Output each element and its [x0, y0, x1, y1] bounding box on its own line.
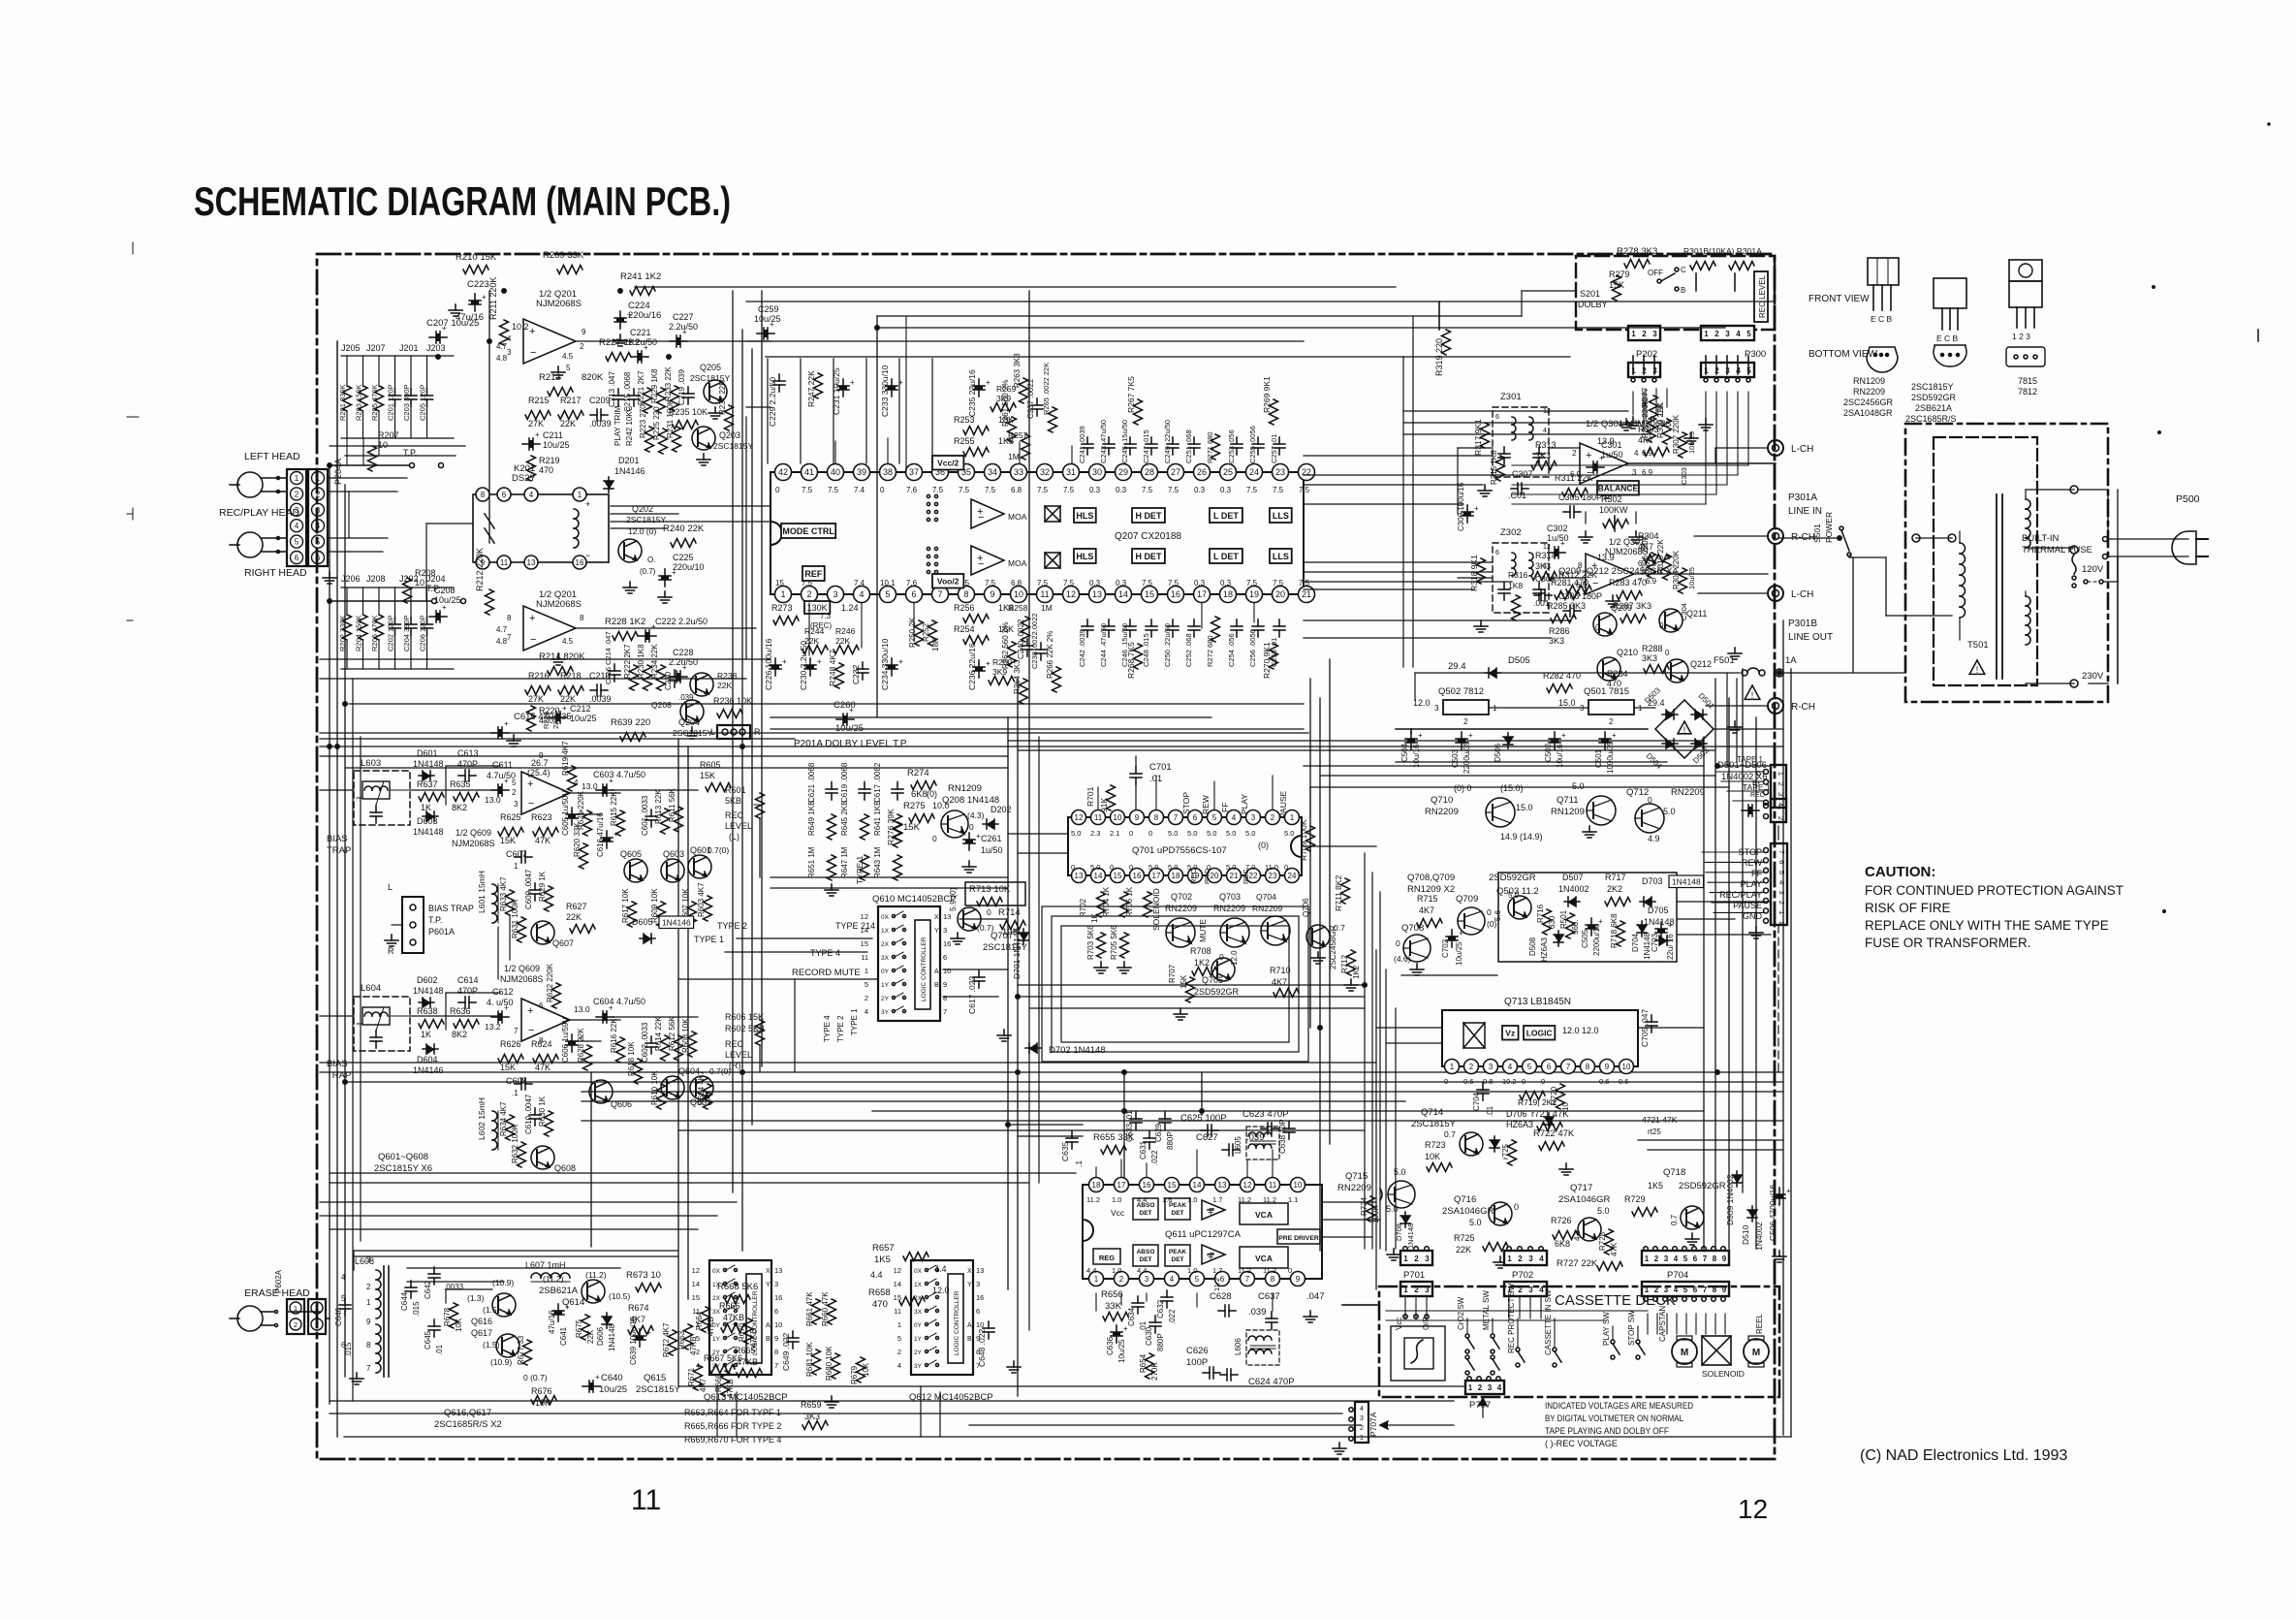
page number 12: [1738, 1494, 1768, 1524]
wire p202 risers: [1633, 356, 1654, 374]
junction dots cluster c: [328, 463, 1841, 1084]
svg-text:O/P: O/P: [1422, 1317, 1431, 1330]
label Q701 uPD7556CS-107: [1132, 841, 1269, 856]
svg-text:1N4002: 1N4002: [1558, 884, 1589, 894]
svg-text:820K: 820K: [582, 372, 604, 383]
svg-text:5: 5: [1212, 813, 1217, 822]
resistor R624 47K: [531, 1039, 558, 1072]
mixer lower: [1045, 553, 1060, 568]
svg-text:3: 3: [1434, 704, 1439, 713]
wire vertical x710 mid: [687, 746, 689, 1299]
svg-text:T.P.: T.P.: [428, 915, 442, 925]
wire x1448 drop: [1402, 357, 1404, 667]
IC Q713 body: [1442, 1010, 1638, 1066]
resistor R319 220 (vert): [1434, 330, 1451, 376]
label P301B LINE OUT: [1788, 619, 1833, 643]
svg-text:RIGHT HEAD: RIGHT HEAD: [244, 567, 307, 579]
svg-text:5: 5: [1195, 1275, 1200, 1284]
wire left column risers: [347, 438, 379, 465]
svg-text:22K: 22K: [717, 681, 732, 690]
label RECORD MUTE: [792, 968, 861, 978]
svg-text:BIAS TRAP: BIAS TRAP: [428, 904, 474, 913]
resistor R607 10K (vert): [681, 888, 697, 927]
transistor Q718 2SD592GR: [1663, 1167, 1726, 1245]
svg-text:0.6: 0.6: [1599, 1077, 1609, 1086]
svg-text:10: 10: [774, 1320, 782, 1329]
svg-text:R273: R273: [771, 603, 793, 613]
svg-text:R637: R637: [417, 779, 438, 789]
transistor Q202 2SC1815Y: [618, 504, 666, 562]
svg-text:OFF: OFF: [1648, 269, 1663, 277]
svg-text:RN1209: RN1209: [948, 783, 982, 794]
svg-text:D505: D505: [1508, 655, 1530, 666]
svg-text:(1.5): (1.5): [483, 1305, 500, 1315]
svg-text:5.0: 5.0: [1284, 829, 1294, 838]
box REC LEVEL vertical: [1754, 271, 1768, 322]
svg-text:D202: D202: [991, 805, 1012, 814]
legend labels RN1209 group: [1843, 376, 1894, 418]
svg-text:9: 9: [1605, 1063, 1610, 1071]
svg-text:2: 2: [1609, 717, 1614, 726]
svg-text:16: 16: [576, 558, 584, 567]
capacitor C502 10u/16 (vert): [1544, 731, 1566, 768]
capacitor C604 4.7u/50: [593, 997, 645, 1023]
resistor R702 1K (vert): [1079, 892, 1106, 923]
svg-text:C303: C303: [1680, 467, 1688, 485]
transistor Q717: [1578, 1218, 1601, 1241]
svg-text:22K: 22K: [560, 419, 576, 429]
svg-text:C232: C232: [851, 664, 861, 684]
svg-text:R219: R219: [539, 456, 560, 465]
svg-text:TYPE 1: TYPE 1: [694, 935, 724, 944]
label Q713 LB1845N: [1504, 997, 1571, 1007]
svg-text:R616 22K: R616 22K: [610, 1018, 618, 1053]
svg-text:REC PROTECT SW: REC PROTECT SW: [1507, 1283, 1516, 1353]
svg-text:L: L: [388, 882, 393, 892]
svg-text:0: 0: [1110, 863, 1114, 872]
svg-text:7.5: 7.5: [828, 486, 839, 494]
svg-text:9: 9: [990, 589, 994, 599]
svg-text:880P: 880P: [1156, 1333, 1165, 1351]
label RIGHT HEAD: [244, 567, 307, 579]
svg-text:0.3: 0.3: [1116, 579, 1127, 588]
ground bridge: [1728, 721, 1742, 733]
connector P702 row2: [1504, 1282, 1547, 1296]
resistor R705 5K6 (vert): [1110, 925, 1131, 973]
svg-text:L-CH: L-CH: [1791, 444, 1813, 455]
svg-text:13.0: 13.0: [485, 795, 501, 805]
svg-text:13.2: 13.2: [485, 1022, 501, 1032]
resistor R279 15K: [1609, 270, 1630, 301]
wire mid horizontal y812: [1310, 786, 1729, 788]
resistor R262 560 2% (vert): [1001, 622, 1017, 669]
page number 11: [631, 1484, 661, 1516]
capacitor C225 220u/10: [623, 553, 705, 603]
resistor R263 3K3 (vert): [1013, 353, 1028, 403]
resistor R603 4K7 (vert): [697, 882, 712, 921]
legend labels 2SC1815Y group: [1905, 382, 1957, 424]
svg-text:12: 12: [1738, 1494, 1768, 1524]
svg-text:6: 6: [943, 953, 947, 962]
wire bottom bundle y1445: [330, 1400, 1454, 1402]
svg-text:X: X: [766, 1268, 771, 1275]
svg-text:+: +: [504, 1003, 509, 1012]
svg-text:R630 1K: R630 1K: [538, 1096, 547, 1127]
wire q713 feeds: [1376, 1028, 1704, 1043]
wire mid horizontal y960 right: [1677, 934, 1771, 936]
IC Q701 top pins 12-1: [1071, 810, 1300, 839]
resistor R636 8K2: [450, 1006, 479, 1039]
capacitor C212 10u/25: [542, 704, 597, 729]
svg-text:25: 25: [1223, 467, 1233, 477]
svg-text:R303: R303: [1638, 425, 1659, 434]
svg-text:18: 18: [1092, 1181, 1101, 1190]
svg-text:LOGIC CONTROLLER: LOGIC CONTROLLER: [954, 1290, 960, 1355]
svg-text:C624 470P: C624 470P: [1248, 1377, 1295, 1387]
svg-text:10u/25: 10u/25: [570, 714, 597, 723]
svg-text:15.0: 15.0: [1558, 698, 1576, 708]
svg-text:1: 1: [1704, 330, 1709, 338]
resistor R260 3K9: [989, 657, 1014, 685]
transistor Q503: [1494, 891, 1531, 921]
svg-text:(R): (R): [729, 1061, 741, 1070]
svg-text:11: 11: [861, 953, 868, 962]
resistor R216 27K: [525, 671, 550, 704]
svg-text:R703 5K6: R703 5K6: [1086, 925, 1095, 960]
svg-text:1: 1: [1645, 1255, 1650, 1263]
capacitor C619 .0068 (vert): [840, 762, 870, 803]
pot R302 100KW: [1579, 494, 1643, 543]
svg-text:C615 470u/35: C615 470u/35: [514, 712, 572, 722]
wire x1458 drop: [1412, 316, 1414, 667]
svg-text:9: 9: [366, 1318, 371, 1326]
svg-text:3: 3: [1528, 1255, 1533, 1263]
svg-text:8: 8: [366, 1341, 371, 1350]
label MUTE (rot): [1198, 919, 1208, 942]
op-amp U-Q201b: [496, 606, 584, 665]
svg-text:29.4: 29.4: [1448, 661, 1466, 672]
wire band y1166: [678, 1129, 1365, 1131]
resistor R711 8K2 (vert): [1334, 875, 1350, 911]
connector BIAS TRAP T.P. P601A: [385, 882, 474, 956]
capacitor C640 10u/25: [582, 1373, 627, 1395]
svg-text:(C) NAD Electronics Ltd. 199: (C) NAD Electronics Ltd. 1993: [1860, 1447, 2067, 1464]
IC Q610 MC14052BCP: [861, 906, 952, 1021]
svg-text:−: −: [978, 512, 984, 524]
svg-text:R211 220K: R211 220K: [488, 277, 498, 320]
svg-text:Z301: Z301: [1500, 392, 1522, 402]
transformer primary coil: [1960, 531, 1966, 640]
svg-text:Q712: Q712: [1626, 787, 1649, 798]
svg-text:Y: Y: [766, 1282, 771, 1288]
svg-text:Q706: Q706: [1302, 898, 1310, 917]
wire top bus d: [877, 327, 1725, 329]
capacitor C615 470u/35: [491, 712, 572, 746]
svg-text:C213 .047: C213 .047: [608, 371, 616, 407]
box LOGIC: [1524, 1026, 1555, 1040]
capacitor C704 .01 (vert): [1472, 1083, 1494, 1117]
resistor R316 1K8: [1508, 570, 1528, 620]
svg-text:8: 8: [1154, 813, 1159, 822]
svg-text:C606 1u/59V: C606 1u/59V: [561, 1017, 570, 1063]
svg-text:1: 1: [1450, 1063, 1455, 1071]
svg-text:+: +: [849, 706, 854, 715]
resistor R666 47KB: [719, 1301, 746, 1333]
svg-text:R651 1M: R651 1M: [807, 846, 816, 878]
wire right vertical bus x1362: [1319, 698, 1321, 1251]
wire right vertical bus x1372: [1329, 659, 1331, 1144]
svg-text:0.3: 0.3: [1194, 486, 1206, 494]
svg-text:4.4: 4.4: [870, 1270, 883, 1280]
resistor R707 15K (rot): [1168, 964, 1195, 1002]
svg-text:C634: C634: [1127, 1307, 1136, 1326]
svg-text:2: 2: [1777, 782, 1785, 786]
op-amp U-Q201a: [496, 319, 586, 378]
label T501: [1967, 640, 1989, 675]
resistor R287 3K3: [1613, 601, 1651, 623]
capacitor C238 .0022 (vert): [1030, 613, 1047, 669]
ground lineout: [1728, 648, 1742, 659]
svg-text:2SA1046GR: 2SA1046GR: [1442, 1206, 1494, 1217]
resistor R672 4K7 (vert): [662, 1322, 677, 1357]
label BIAS TRAP lower: [327, 1059, 351, 1081]
svg-text:!: !: [1976, 665, 1979, 675]
wire under jbank a: [330, 445, 465, 447]
svg-text:P301B: P301B: [1788, 619, 1817, 629]
svg-text:7.5: 7.5: [1273, 486, 1284, 494]
svg-text:1: 1: [865, 967, 868, 975]
svg-text:R628 22K: R628 22K: [577, 1028, 585, 1063]
svg-text:2: 2: [1642, 330, 1647, 338]
svg-text:6: 6: [539, 1001, 544, 1010]
svg-text:+: +: [1560, 539, 1565, 548]
svg-text:2: 2: [1777, 901, 1786, 905]
svg-text:RN1209: RN1209: [1551, 807, 1585, 817]
svg-text:3Y: 3Y: [881, 1009, 890, 1016]
wire q701 left feeds: [1008, 834, 1068, 853]
diode D602 1N4148: [413, 975, 444, 1007]
svg-text:R274: R274: [907, 768, 929, 778]
capacitor C612 4.7u/50: [485, 987, 514, 1032]
svg-text:7: 7: [774, 1361, 778, 1370]
svg-text:VCA: VCA: [1255, 1254, 1273, 1263]
capacitor C636 10u/25 (vert): [1106, 1324, 1128, 1363]
svg-text:P301A: P301A: [1788, 492, 1817, 503]
svg-text:11: 11: [1269, 1181, 1277, 1190]
resistor R217 22K: [558, 396, 583, 429]
label Q601~Q608 2SC1815Y X6: [374, 1152, 432, 1174]
box BALANCE: [1597, 481, 1639, 495]
svg-text:0.6: 0.6: [1619, 1077, 1628, 1086]
capacitor C306 180P: [1558, 591, 1602, 617]
svg-text:D703: D703: [1642, 876, 1663, 886]
resistor R228 1K2: [605, 617, 645, 641]
resistor R633 4K7 (vert): [499, 876, 515, 915]
svg-text:D509 1N4002: D509 1N4002: [1725, 1174, 1735, 1225]
transistor Q617: [490, 1334, 519, 1367]
svg-text:0X: 0X: [712, 1268, 721, 1275]
jack L-CH line in: [1768, 440, 1813, 456]
svg-text:R620 33K: R620 33K: [573, 822, 582, 857]
svg-text:R647 1M: R647 1M: [840, 846, 849, 878]
IC Q207 CX20188 body: [771, 472, 1304, 594]
wire plug vertical: [2108, 490, 2118, 683]
transistor Q603: [661, 849, 684, 882]
diode D603 1N4146: [413, 811, 444, 837]
svg-text:10: 10: [1014, 589, 1023, 599]
svg-text:L603: L603: [361, 758, 381, 769]
capacitor C240 .0022 (vert): [1017, 619, 1033, 659]
box L DET lower: [1210, 549, 1242, 563]
svg-text:9: 9: [1296, 1275, 1301, 1284]
transistor Q706 2SC2458GR: [1302, 898, 1345, 969]
svg-text:16: 16: [976, 1293, 984, 1302]
diode D202: [983, 805, 1012, 829]
svg-text:2X: 2X: [712, 1295, 721, 1302]
svg-text:0: 0: [1487, 907, 1492, 917]
svg-text:NJM2068S: NJM2068S: [500, 974, 544, 984]
capacitor C635 .1 (vert): [1060, 1131, 1084, 1167]
svg-text:R268 7K5: R268 7K5: [1126, 642, 1136, 679]
wire horizontal y1006 right: [1401, 974, 1497, 976]
svg-text:7.4: 7.4: [854, 579, 865, 588]
svg-text:8: 8: [1271, 1275, 1275, 1284]
svg-text:−: −: [528, 798, 534, 810]
resistor R219 470: [527, 456, 560, 481]
capacitor C613 470P: [457, 748, 479, 781]
svg-text:R241 1K2: R241 1K2: [620, 271, 661, 282]
ground r64x bank: [825, 884, 838, 896]
svg-text:P601A: P601A: [428, 927, 455, 937]
svg-text:26: 26: [1197, 467, 1207, 477]
ground q611 right: [1304, 1311, 1317, 1322]
svg-text:13: 13: [1075, 872, 1084, 880]
resistor R708 1K2: [1190, 946, 1224, 976]
svg-text:12.0 12.0: 12.0 12.0: [1562, 1026, 1599, 1035]
svg-text:C225: C225: [673, 553, 694, 562]
svg-text:0.3: 0.3: [1194, 579, 1206, 588]
svg-text:R248 4K7: R248 4K7: [828, 650, 837, 686]
svg-text:J206: J206: [341, 574, 361, 584]
capacitor C215 .0068 (vert): [623, 371, 640, 412]
wire p300 risers: [1706, 356, 1748, 374]
resistor R651 1M (vert): [807, 846, 836, 880]
wire record mute run: [678, 979, 878, 1072]
svg-text:12: 12: [1543, 544, 1551, 551]
resistor R716 330 (vert): [1536, 904, 1557, 935]
resistor R677 33 (vert): [517, 1335, 532, 1365]
svg-text:6K8: 6K8: [911, 789, 928, 800]
transistor Q209: [1593, 603, 1632, 636]
capacitor C705 .047 (vert): [1640, 1009, 1657, 1047]
svg-text:C623 470P: C623 470P: [1242, 1109, 1289, 1120]
svg-text:2Y: 2Y: [914, 1350, 923, 1356]
svg-text:C252 .068: C252 .068: [1184, 633, 1193, 667]
capacitor C610 .0047 (vert): [524, 1094, 541, 1134]
box H DET lower: [1132, 549, 1165, 563]
resistor R718 6K8 (vert): [1610, 913, 1625, 948]
svg-text:2SD592GR: 2SD592GR: [1911, 393, 1957, 402]
svg-text:R267 7K5: R267 7K5: [1126, 376, 1136, 413]
resistor R643 1M (vert): [873, 846, 902, 880]
svg-text:1N4148: 1N4148: [413, 986, 444, 996]
capacitor C202 120P: [387, 588, 401, 669]
resistor R275 15K: [903, 789, 950, 833]
svg-text:10u/25: 10u/25: [543, 440, 570, 450]
svg-text:C626: C626: [1186, 1346, 1209, 1356]
svg-text:R286: R286: [1549, 626, 1570, 636]
resistor R272 680 (vert): [1206, 617, 1220, 667]
label 29.4: [1448, 661, 1466, 672]
svg-text:8K2: 8K2: [452, 803, 467, 812]
wire q207 top feed y368: [766, 356, 1570, 358]
svg-text:3K3: 3K3: [1535, 561, 1551, 571]
svg-text:3: 3: [1725, 330, 1730, 338]
svg-text:D704: D704: [1631, 933, 1640, 952]
svg-text:C625 100P: C625 100P: [1180, 1113, 1227, 1124]
svg-text:3: 3: [514, 800, 519, 809]
legend TO-92 flat package front: [1868, 258, 1899, 324]
wire P701 drops: [1403, 1296, 1429, 1318]
svg-text:7.6: 7.6: [906, 579, 918, 588]
resistor r725 (vert): [1490, 1136, 1517, 1165]
svg-text:1K: 1K: [421, 1030, 431, 1039]
svg-text:7.5: 7.5: [1037, 579, 1049, 588]
svg-text:0: 0: [969, 822, 974, 832]
svg-text:10K: 10K: [1425, 1152, 1440, 1161]
capacitor C703 22u/16 (vert): [1651, 921, 1675, 960]
capacitor C649 .022 (vert): [781, 1331, 799, 1371]
svg-text:C645: C645: [424, 1330, 432, 1350]
resistor R681 10K (vert): [805, 1342, 821, 1377]
capacitor C216 .047 (vert): [604, 631, 620, 684]
transistor Q206 22K: [690, 671, 738, 696]
svg-text:NJM2068S: NJM2068S: [536, 599, 582, 610]
svg-text:C644: C644: [400, 1291, 409, 1311]
IC Q613 MC14052BCP: [692, 1260, 783, 1375]
wire border-inner vertical x1848: [1790, 669, 1792, 1437]
svg-text:17: 17: [1117, 1181, 1126, 1190]
svg-text:C648 .022: C648 .022: [977, 1329, 987, 1367]
capacitor C204 390P: [402, 588, 417, 669]
svg-text:0: 0: [1522, 1077, 1525, 1086]
box HLS upper: [1074, 508, 1096, 523]
transistor Q710 RN2209: [1425, 795, 1543, 842]
resistor R255 1K8: [954, 436, 1014, 457]
capacitor C235 22u/16 (vert): [967, 369, 991, 417]
svg-text:C502: C502: [1544, 743, 1553, 762]
resistor R205 470K: [370, 356, 384, 438]
svg-text:.0033: .0033: [444, 1283, 464, 1291]
capacitor C624 470P: [1220, 1369, 1295, 1387]
svg-text:Q603: Q603: [663, 849, 684, 859]
resistor R618 10K (vert): [627, 1041, 643, 1084]
wire p300 long drops: [1706, 392, 1748, 456]
svg-text:RN2209: RN2209: [1252, 904, 1282, 913]
svg-text:19: 19: [1249, 589, 1259, 599]
wire q701 to right: [1302, 787, 1376, 846]
svg-text:R285 3K3: R285 3K3: [1547, 601, 1586, 611]
svg-text:0.7: 0.7: [1670, 1214, 1679, 1225]
svg-text:14: 14: [1118, 589, 1128, 599]
resistor R241 1K2: [620, 271, 661, 296]
svg-text:10.1: 10.1: [880, 579, 896, 588]
label Q716 2SA1046GR: [1442, 1194, 1494, 1227]
capacitor C222 2.2u/50: [639, 617, 708, 642]
resistor R724 100K (vert): [1360, 1196, 1399, 1223]
svg-text:14: 14: [861, 926, 868, 935]
wire horizontal y700 left: [320, 678, 746, 680]
